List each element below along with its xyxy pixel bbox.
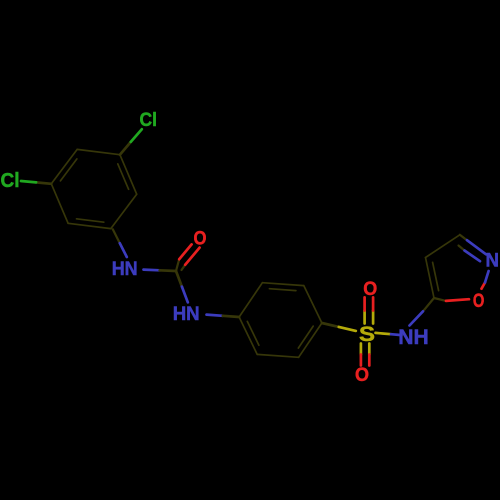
ring1 inner double-bond line (7-307)	[118, 164, 129, 189]
ring2 inner double-bond line (120-180)	[247, 321, 259, 345]
ring1 C-C bond (67-127)	[68, 223, 111, 228]
bond C-NH(anilide) dark half	[113, 229, 120, 243]
bond C5(isox)-NH(c) dark half	[423, 298, 434, 311]
bond C3=N2 inner blue	[465, 251, 481, 262]
bond C-Cl(top)	[120, 142, 131, 155]
ring1 C-C bond (127-187)	[51, 184, 68, 224]
ring2 C-C bond (240-300)	[262, 283, 303, 286]
ring1 C-C bond (247-307)	[77, 149, 120, 154]
S=O(bot) left line red	[360, 355, 363, 366]
urea C=O 2nd line (red half)	[185, 248, 199, 265]
ring1 inner double-bond line (247-187)	[60, 159, 77, 181]
urea C=O main line (red half)	[179, 244, 191, 259]
ring2 C-C bond (180-240)	[239, 283, 262, 317]
bond HN(b)-C1'	[207, 315, 223, 316]
ring2 C-C bond (60-120)	[257, 354, 298, 357]
svg-text:O: O	[194, 229, 207, 250]
ring2 C-C bond (0-60)	[299, 323, 322, 357]
ring1 inner double-bond line (127-67)	[77, 219, 104, 222]
urea C=O 2nd line (dark half)	[182, 265, 186, 270]
bond O1-N2 blue half	[485, 271, 489, 283]
svg-text:O: O	[473, 291, 485, 312]
bond C-NH(anilide) blue half	[120, 243, 127, 257]
bond C5-O1 dark half	[434, 298, 446, 301]
svg-text:Cl: Cl	[1, 170, 20, 192]
bond C3=N2 inner dark	[459, 246, 465, 251]
svg-text:NH: NH	[398, 326, 429, 349]
ring2 C-C bond (300-0)	[304, 286, 322, 323]
urea C=O main line (dark half)	[176, 259, 179, 271]
S=O(bot) right line yellow	[368, 344, 371, 355]
svg-text:HN: HN	[112, 259, 138, 280]
ring2 inner double-bond line (240-300)	[269, 289, 296, 291]
bond C4=C5 inner	[433, 262, 439, 290]
bond C5(isox)-NH(c) blue half	[410, 311, 424, 325]
bond C3=N2 main blue	[467, 240, 486, 254]
S=O(top) right line red	[372, 297, 375, 310]
bond C4=C5 main	[426, 258, 435, 299]
bond C5-O1 red half	[446, 299, 469, 301]
svg-text:Cl: Cl	[139, 109, 157, 131]
bond C(=O)-NH(b)	[176, 271, 182, 287]
bond S-N(c) blue half	[391, 333, 402, 337]
ring1 C-C bond (307-7)	[120, 155, 137, 195]
bond C3-C4 isoxazole	[426, 235, 460, 258]
svg-text:O: O	[355, 365, 369, 386]
svg-text:O: O	[363, 279, 377, 300]
ring1 C-C bond (187-247)	[51, 149, 77, 183]
svg-text:N: N	[486, 251, 500, 272]
ring2 inner double-bond line (0-60)	[298, 326, 313, 348]
bond C4'-S	[322, 323, 339, 327]
ring1 C-C bond (7-67)	[111, 194, 137, 228]
S=O(top) left line yellow	[363, 311, 366, 324]
S=O(top) right line yellow	[372, 311, 375, 324]
bond C3=N2 main dark	[460, 235, 467, 240]
svg-text:HN: HN	[173, 304, 200, 325]
ring2 C-C bond (120-180)	[239, 317, 257, 354]
bond HN(a)-C(=O)	[144, 268, 160, 271]
S=O(bot) left line yellow	[360, 344, 363, 355]
bond O1-N2 red half	[482, 283, 486, 289]
bond S-N(c) yellow half	[376, 333, 392, 334]
svg-text:S: S	[359, 322, 375, 346]
bond C-Cl(left)	[36, 182, 51, 183]
S=O(top) left line red	[363, 297, 366, 310]
S=O(bot) right line red	[368, 355, 371, 366]
